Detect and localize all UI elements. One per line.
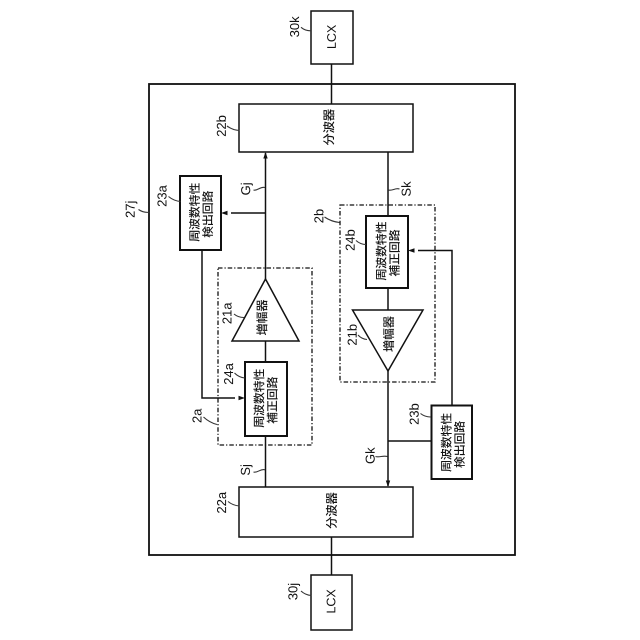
- arrow into 23a: [221, 211, 228, 215]
- text bunpaki 22a: [326, 493, 337, 529]
- leader Sk: [389, 189, 400, 191]
- label 27j: [125, 201, 137, 217]
- dashed block 2a: [218, 268, 312, 445]
- leader 22a: [228, 502, 240, 507]
- label 22b: [216, 116, 226, 136]
- arrow into 22a: [386, 481, 390, 488]
- wire 30k-22b: [331, 64, 333, 104]
- leader Gj: [254, 187, 266, 190]
- label 21b: [347, 324, 357, 344]
- leader Gk: [376, 455, 388, 458]
- leader 30j: [301, 591, 311, 596]
- label 2a: [192, 409, 201, 423]
- wire 24a-21a: [265, 341, 267, 362]
- wire 21a-22b Gj: [265, 153, 267, 279]
- correction box 24b: [366, 216, 408, 288]
- amplifier 21a: [232, 279, 299, 341]
- text detector 23a: [189, 183, 213, 241]
- leader Sj: [254, 470, 266, 473]
- wire 23a-24a: [202, 250, 235, 398]
- leader 21b: [358, 335, 367, 340]
- splitter box 22b: [239, 104, 413, 152]
- arrow into 22b: [263, 152, 267, 159]
- correction box 24a: [245, 362, 287, 436]
- text amp 21a: [256, 300, 267, 335]
- leader 22b: [227, 126, 240, 131]
- text detector 23b: [441, 413, 465, 471]
- text correction 24a: [253, 369, 277, 427]
- node Gj: [241, 183, 253, 194]
- leader 23a: [169, 197, 181, 202]
- leader 24a: [235, 373, 245, 378]
- wire tap-23a: [231, 212, 266, 214]
- wire 24b-21b: [387, 288, 389, 310]
- dashed block 2b: [340, 205, 435, 382]
- label 30k: [290, 16, 300, 36]
- leader 27j: [139, 210, 150, 213]
- splitter box 22a: [239, 487, 413, 537]
- node Sk: [401, 181, 411, 196]
- wire 22a-30j: [331, 537, 333, 575]
- leader 2a: [204, 417, 218, 425]
- label 30j: [288, 584, 300, 600]
- node Sj: [240, 465, 252, 475]
- arrow into 24b: [408, 248, 415, 252]
- detector box 23b: [432, 406, 473, 480]
- text amp 21b: [383, 316, 394, 351]
- label 24a: [224, 363, 233, 384]
- label 2b: [314, 209, 324, 222]
- label 24b: [345, 230, 355, 250]
- label 22a: [217, 492, 226, 513]
- label 23b: [409, 404, 419, 424]
- text LCX 30k: [327, 25, 336, 48]
- text correction 24b: [376, 222, 400, 280]
- amplifier 21b: [353, 310, 424, 371]
- wire 21b-22a Gk: [387, 371, 389, 486]
- wire 23b-24b: [418, 251, 452, 407]
- leader 2b: [325, 217, 340, 223]
- text bunpaki 22b: [323, 109, 334, 145]
- leader 30k: [301, 27, 311, 31]
- node Gk: [365, 447, 375, 463]
- wire 22a-24a Sj: [265, 437, 267, 487]
- wire 22b-24b Sk: [387, 152, 389, 216]
- text LCX 30j: [327, 589, 336, 612]
- leader 24b: [356, 241, 366, 245]
- LCX box 30k: [311, 11, 353, 64]
- label 23a: [157, 185, 166, 206]
- detector box 23a: [180, 176, 221, 250]
- leader 21a: [234, 314, 244, 318]
- leader 23b: [421, 414, 432, 418]
- wire branch-23b: [388, 440, 432, 442]
- label 21a: [222, 302, 231, 323]
- outer box 27j: [149, 84, 515, 555]
- arrow into 24a: [239, 396, 246, 400]
- LCX box 30j: [311, 575, 352, 630]
